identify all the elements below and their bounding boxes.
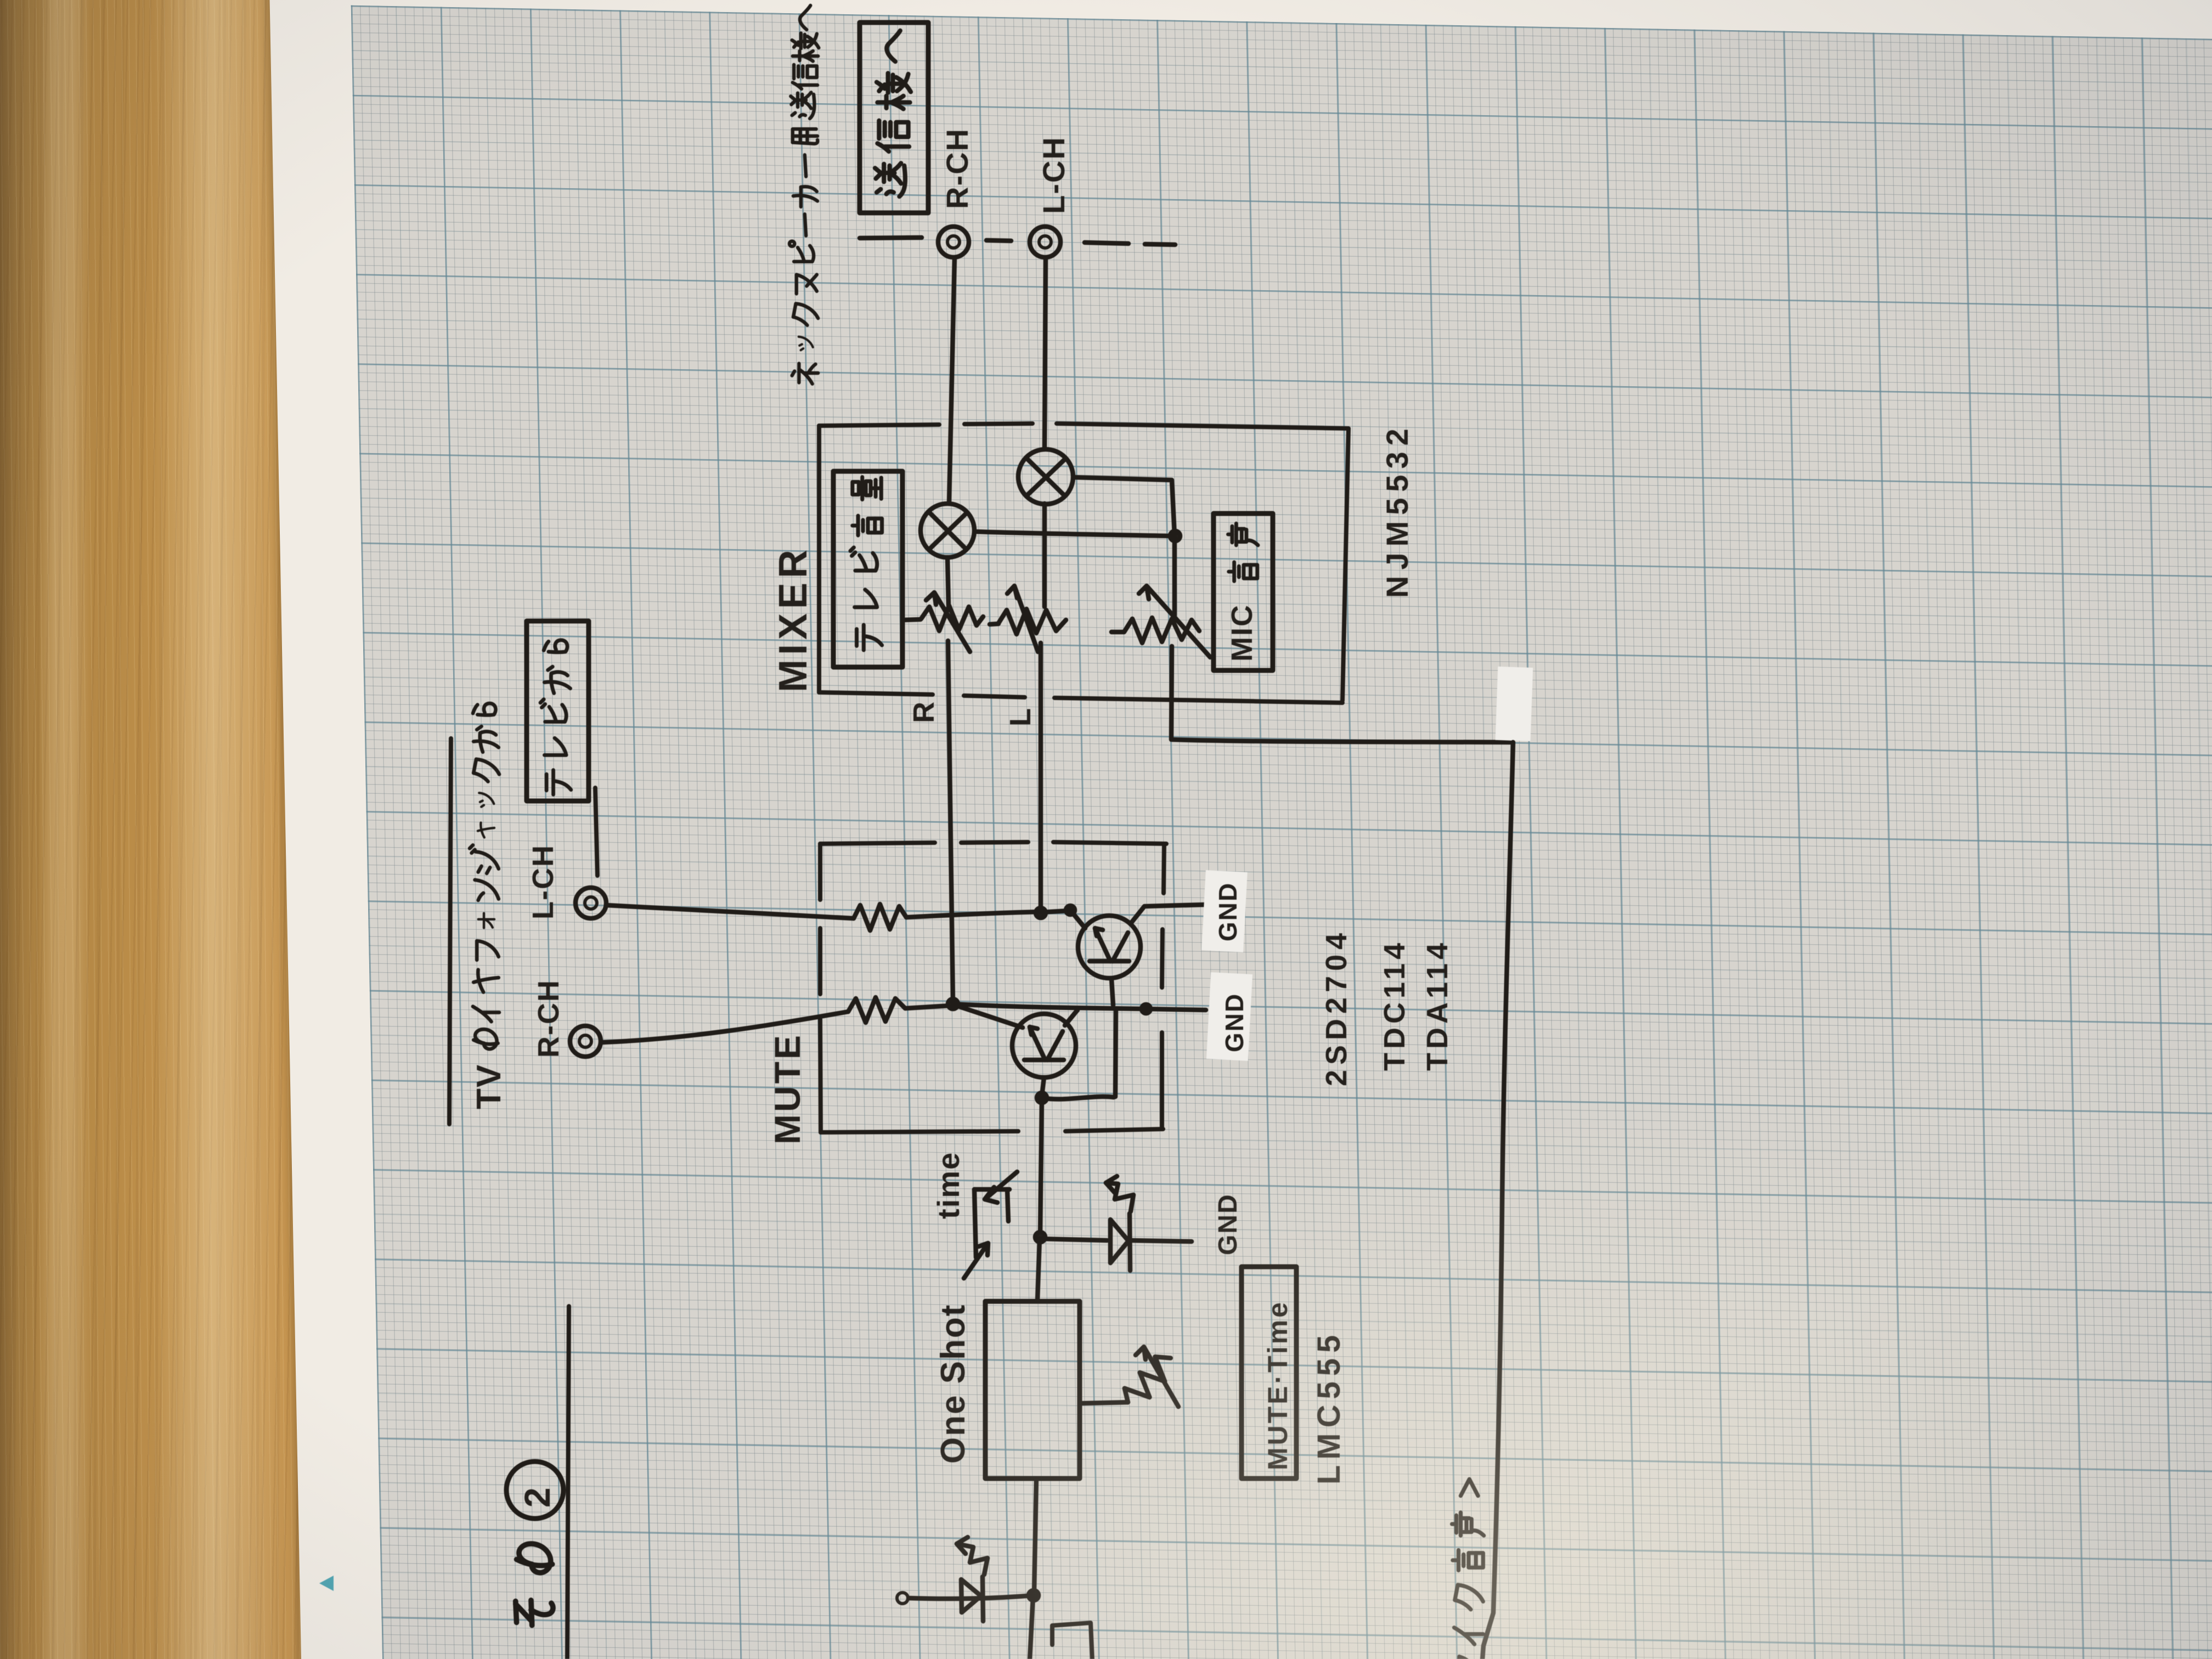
svg-text:One Shot: One Shot (934, 1304, 972, 1464)
mixer summing node X1 (R) circle-X (921, 504, 974, 557)
decorative: paper margin triangle (319, 1576, 334, 1591)
node: header "neck speaker transmitter he" (789, 5, 819, 384)
node: trigger pulse waveform mark (1052, 1623, 1092, 1659)
node R-CH label (TV input) (532, 979, 565, 1058)
jack J3 R-CH output (938, 227, 969, 257)
svg-text:MUTE·Time: MUTE·Time (1262, 1300, 1293, 1470)
node L bus label (1004, 708, 1037, 726)
node R bus label (907, 702, 940, 723)
node F: junction on output bus (1170, 531, 1180, 541)
wire: X2 down to potentiometer VR2 (1042, 504, 1047, 607)
svg-text:2: 2 (517, 1487, 557, 1508)
wire: node D down to one-shot box (1037, 1239, 1040, 1301)
node A: junction L bus / R1 (1036, 908, 1046, 918)
node D: junction (one-shot output) (1035, 1232, 1045, 1242)
potentiometer VR1 (TV volume R) (905, 592, 983, 652)
node: sheet title "sono 2" (circled 2) (506, 1462, 563, 1626)
node: one-shot label (934, 1304, 972, 1464)
transistor Q1 (mute, R channel) (1012, 1014, 1076, 1077)
wire: R2 to R bus junction (905, 1006, 950, 1008)
jack J2 R-CH input (phone jack) (570, 1026, 601, 1057)
wire: header underline (449, 738, 451, 1124)
svg-text:R: R (907, 702, 940, 723)
node: "time" label (931, 1152, 966, 1219)
svg-text:time: time (931, 1152, 966, 1219)
node B: junction R bus / R2 (948, 999, 958, 1009)
LED D2 (trigger indicator) (957, 1537, 988, 1621)
potentiometer VR3 (MIC volume) (1111, 586, 1210, 657)
wire: VR1 wiper down to node B (948, 641, 953, 1002)
wire: Q2 emitter stub to R line (1111, 979, 1113, 1005)
wire: J3 down to mixer pot VR1 (949, 258, 955, 503)
node: LMC555 label (1311, 1330, 1347, 1485)
node E: trigger junction (1029, 1590, 1039, 1600)
svg-text:GND: GND (1214, 882, 1242, 941)
potentiometer VR2 (TV volume L) (990, 586, 1066, 652)
IC U1: one-shot block (LMC555) (985, 1301, 1080, 1479)
resistor R2 (R-ch series) (848, 997, 905, 1023)
node L-CH output label (1036, 136, 1071, 214)
jack J1 L-CH input (phone jack) (575, 888, 606, 918)
svg-text:TDA114: TDA114 (1421, 939, 1454, 1071)
node R-CH output label (940, 128, 974, 209)
capacitor C1 (timing, trimmer marks) (964, 1172, 1017, 1278)
svg-text:MIC: MIC (1226, 604, 1259, 662)
wire: junction B to Q1 base (955, 1005, 1023, 1028)
LED D1 (mute indicator) (1106, 1176, 1133, 1271)
node: MUTE dashed enclosure (820, 842, 1166, 1132)
svg-text:L-CH: L-CH (527, 844, 560, 919)
ground GND2 (tape label) (1206, 972, 1252, 1061)
svg-text:R-CH: R-CH (532, 979, 565, 1058)
wire: node C down to node D (1040, 1099, 1042, 1235)
node: boxed label "terebi onryou" (TV volume) (833, 471, 902, 667)
node: mic audio source label (1452, 1479, 1484, 1659)
wire: X2 right lead and output bus down to VR3 (1074, 477, 1175, 616)
wire: R line continues over Q1 to ground tape (953, 1004, 1206, 1013)
node: NJM5532 label (1380, 422, 1414, 598)
ground GND3 label (1214, 1193, 1243, 1255)
ground GND1 (tape label) (1201, 870, 1248, 952)
wire: node E down to sheet edge (1030, 1596, 1033, 1659)
node: sheet title underline "sono-2" rule (567, 1306, 569, 1659)
wire: one-shot box to node E (1034, 1479, 1036, 1593)
svg-text:NJM5532: NJM5532 (1380, 422, 1414, 598)
node C: Q1 emitter junction (1037, 1093, 1047, 1103)
svg-text:GND: GND (1214, 1193, 1243, 1255)
svg-text:TDC114: TDC114 (1378, 939, 1411, 1071)
mixer summing node X2 (L) circle-X (1018, 449, 1073, 504)
svg-text:GND: GND (1220, 993, 1249, 1052)
wire: J4 down to mixer pot VR2 (1045, 258, 1046, 449)
svg-text:TV: TV (470, 1064, 508, 1109)
node: boxed label "soushinki he" (to transmitter) (860, 22, 928, 213)
jack J4 L-CH output (1030, 227, 1060, 257)
wire: node C loop right and up to R line (1042, 1011, 1116, 1099)
svg-text:L: L (1004, 708, 1037, 726)
node: MIXER enclosure box (819, 424, 1348, 703)
wire: junction A to Q2 base node (1041, 906, 1085, 928)
wire: LED D1 to ground GND3 (1131, 1240, 1192, 1242)
node: boxed label "MIC onsei" (mic audio) (1214, 513, 1273, 670)
wire: J2 to resistor R2 (602, 1012, 848, 1042)
wire: X1 right lead to output bus (975, 532, 1173, 536)
wire: VR2 wiper down to node A (1039, 643, 1043, 912)
svg-text:2SD2704: 2SD2704 (1320, 928, 1353, 1086)
wire: Q1 collector diagonal to R line (1065, 1010, 1077, 1025)
wire: X1 down to potentiometer VR1 (947, 557, 949, 606)
svg-text:L-CH: L-CH (1036, 136, 1071, 214)
wire: node D to LED D1 (1040, 1239, 1107, 1240)
terminal: trigger input pin (897, 1593, 908, 1604)
wire: dash between J3 and J4 (986, 240, 1011, 241)
node: MUTE label (767, 1033, 808, 1144)
wire: Q2 collector to ground tape GND1 (1131, 905, 1205, 923)
wire: node E left to trigger input terminal (909, 1595, 1034, 1599)
wire: dashes right of J4 (1085, 242, 1175, 245)
transistor Q2 (mute, L channel) (1078, 916, 1141, 978)
svg-text:MIXER: MIXER (771, 545, 815, 692)
node: header label "TV no earphone jack kara" (from TV earphone jack) (470, 703, 508, 1109)
svg-text:R-CH: R-CH (940, 128, 974, 209)
node L-CH label (TV input) (527, 844, 560, 919)
svg-text:LMC555: LMC555 (1311, 1330, 1347, 1485)
wire: J1 to resistor R1 (607, 905, 854, 918)
node: transistor part numbers 2SD2704 TDC114 TDA114 (1320, 928, 1454, 1086)
node: MIXER label (771, 545, 815, 692)
node: boxed label "terebi kara" (from TV) (527, 621, 589, 801)
wire: Q1 emitter down to node C (1042, 1077, 1044, 1096)
node: MUTE.Time boxed label (1242, 1267, 1296, 1479)
wire: VR3 down then right to mic line corner (1171, 646, 1512, 742)
wire: long mic audio line down the sheet (1482, 742, 1513, 1659)
wire: R1 to L bus junction (906, 912, 1039, 917)
wire: output bus dash left of J3 (860, 238, 922, 238)
resistor R1 (L-ch series) (854, 904, 906, 930)
svg-text:MUTE: MUTE (767, 1033, 808, 1144)
potentiometer VR4 (mute time adjust) (1080, 1347, 1180, 1410)
wire: dash after "terebi kara" label (595, 788, 597, 876)
tape: blank correction tape on mic wire (1496, 667, 1533, 741)
